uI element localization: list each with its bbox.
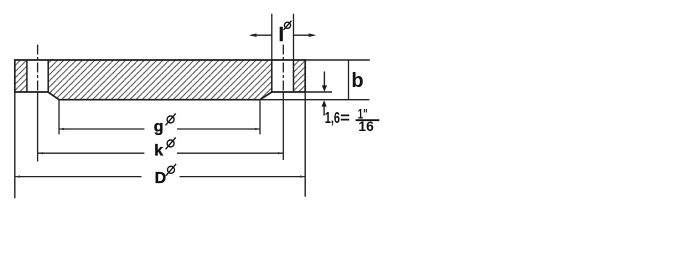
svg-text:g: g (154, 118, 164, 135)
svg-text:D: D (155, 170, 167, 187)
svg-text:k: k (154, 142, 163, 159)
svg-text:=: = (340, 110, 350, 127)
svg-text:l: l (279, 25, 284, 46)
svg-text:b: b (351, 70, 363, 92)
svg-text:16: 16 (358, 119, 374, 134)
svg-text:1,6: 1,6 (325, 110, 340, 127)
